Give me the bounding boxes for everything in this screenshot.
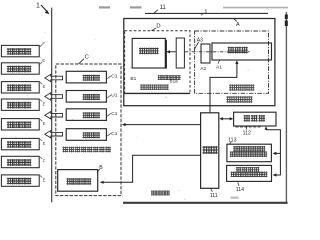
svg-text:C1: C1: [111, 111, 117, 117]
svg-text:1: 1: [36, 2, 40, 9]
svg-text:D: D: [156, 23, 160, 29]
svg-text:E: E: [43, 84, 46, 89]
svg-text:E: E: [43, 141, 46, 146]
svg-text:A3: A3: [197, 37, 203, 43]
svg-text:B1a: B1a: [170, 79, 179, 84]
svg-text:E: E: [43, 177, 46, 182]
svg-text:112: 112: [243, 131, 251, 137]
svg-text:B1: B1: [130, 76, 136, 82]
svg-text:E: E: [43, 101, 46, 106]
svg-text:111: 111: [210, 193, 218, 199]
svg-text:A: A: [236, 22, 240, 28]
svg-text:F: F: [43, 159, 46, 164]
svg-text:113: 113: [228, 137, 236, 143]
svg-text:C: C: [85, 55, 89, 61]
svg-text:F: F: [42, 41, 45, 46]
svg-text:C1: C1: [111, 74, 117, 80]
svg-text:E: E: [42, 58, 45, 63]
svg-text:B: B: [99, 165, 103, 171]
svg-text:A1: A1: [216, 64, 222, 70]
svg-text:C1: C1: [111, 131, 117, 137]
svg-text:E: E: [43, 121, 46, 126]
svg-text:U1: U1: [111, 93, 117, 99]
svg-text:114: 114: [236, 187, 244, 193]
svg-text:A2: A2: [200, 66, 206, 72]
svg-text:11: 11: [160, 5, 167, 11]
